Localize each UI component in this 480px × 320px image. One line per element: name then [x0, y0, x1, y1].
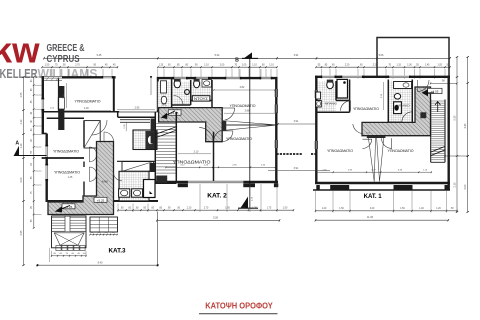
svg-text:9.40: 9.40 — [98, 261, 103, 264]
double door arcs below stem — [199, 128, 213, 142]
svg-text:2.00: 2.00 — [464, 184, 467, 189]
svg-text:5.30: 5.30 — [453, 115, 456, 120]
door arc corridor to bedroom I — [361, 123, 363, 134]
dimension stub right lower — [445, 155, 468, 157]
sink counter 2 lower bathroom — [132, 189, 143, 197]
title underline — [199, 313, 278, 314]
left outer wall lower — [46, 134, 48, 203]
roof terrace outline top right — [377, 38, 449, 78]
top wall left block — [42, 76, 116, 78]
gap dimension 3.91 upper — [278, 123, 316, 125]
lower bathroom KAT3 — [119, 171, 149, 201]
external stair KAT3 right flight — [90, 217, 118, 232]
svg-text:2.10: 2.10 — [453, 182, 456, 187]
dimension chain B3 bottom right — [316, 210, 458, 212]
svg-text:1.95: 1.95 — [225, 208, 230, 210]
pier block right 1 — [330, 185, 349, 190]
dimension chain T2 top detail — [42, 66, 118, 68]
door arc lobby — [103, 132, 105, 142]
dim line bedroom H — [383, 82, 385, 110]
svg-text:1.10: 1.10 — [269, 64, 274, 66]
stairwell walls middle — [175, 112, 177, 184]
svg-text:1.45: 1.45 — [425, 64, 430, 66]
svg-text:1.20: 1.20 — [322, 208, 327, 210]
right block left wall — [315, 76, 317, 184]
wardrobe darts bedroom I-J — [368, 137, 375, 182]
windows middle top wall — [174, 77, 186, 79]
svg-text:ΜΠΑΝΙΟ: ΜΠΑΝΙΟ — [325, 102, 338, 106]
svg-text:ΥΠΝΟΔΩΜΑΤΙΟ: ΥΠΝΟΔΩΜΑΤΙΟ — [230, 104, 256, 108]
vanity in small bathroom — [146, 131, 157, 149]
level box +4.05 right — [427, 88, 442, 93]
closet column with diagonal — [84, 121, 100, 148]
door arc R1 — [341, 101, 351, 111]
svg-text:1.10: 1.10 — [20, 143, 23, 148]
divider wall bedroom C-D — [42, 157, 84, 159]
middle block right wall — [275, 78, 277, 183]
vanity R2 — [394, 82, 412, 89]
window bedroom D left wall — [45, 165, 48, 179]
dark shaft beside stairwell — [150, 163, 156, 172]
svg-text:ΥΠΝΟΔΩΜΑΤΙΟ: ΥΠΝΟΔΩΜΑΤΙΟ — [53, 150, 79, 154]
cupboard blocks at stair wall — [151, 119, 155, 132]
svg-text:1.15: 1.15 — [396, 64, 401, 66]
door arc bathroom R2 — [402, 121, 413, 123]
corner wall lobby — [117, 112, 119, 117]
svg-text:5.24: 5.24 — [215, 54, 220, 57]
svg-text:1.50: 1.50 — [283, 208, 288, 210]
window in right top wall 2 — [389, 76, 409, 78]
svg-text:ΚΑΤ.3: ΚΑΤ.3 — [109, 247, 126, 254]
hall landing hatch middle block — [159, 108, 223, 142]
window in top wall 2 — [261, 77, 271, 79]
dimension line B4 11.06 — [316, 219, 449, 221]
wc room walls — [157, 78, 159, 112]
svg-text:3.91: 3.91 — [294, 120, 299, 123]
dim row right block veranda — [316, 171, 432, 173]
top wall middle block — [157, 77, 278, 79]
svg-text:2.00: 2.00 — [20, 177, 23, 182]
window in top wall left 1 — [103, 76, 112, 78]
svg-text:ΥΠΝΟΔΩΜΑΤΙΟ: ΥΠΝΟΔΩΜΑΤΙΟ — [54, 171, 80, 175]
dim line in bedroom A — [64, 109, 111, 111]
svg-text:ΚΑΤ. 2: ΚΑΤ. 2 — [207, 192, 227, 199]
lobby wardrobe band — [120, 119, 150, 121]
level box +4.05 middle — [168, 110, 181, 115]
stair enclosure right — [430, 100, 432, 163]
window in middle bottom wall — [188, 181, 243, 184]
witness lines bottom right — [315, 191, 317, 213]
door arc bedroom I — [363, 139, 372, 148]
dim line in void — [117, 109, 155, 111]
entry arrow middle — [161, 113, 168, 119]
door arc lower bathroom — [113, 172, 122, 181]
svg-text:ΜΠΑΝΙΟ: ΜΠΑΝΙΟ — [398, 104, 411, 108]
door arc hall to bedroom G — [222, 130, 233, 132]
dim line bedroom E — [178, 153, 211, 155]
bathroom R2 tiles — [389, 81, 413, 122]
dim line bedroom F2 — [224, 112, 276, 114]
window dashes mid-right wall — [275, 89, 277, 97]
wc toilet — [161, 96, 167, 104]
dimension line R1 right — [456, 57, 458, 212]
svg-text:1.00: 1.00 — [242, 64, 247, 66]
door arc M1 — [174, 96, 184, 106]
door arc bedroom C — [89, 147, 96, 162]
pier blocks middle block — [178, 183, 188, 187]
svg-text:3.20: 3.20 — [370, 208, 375, 210]
svg-text:2.70: 2.70 — [204, 208, 209, 210]
door arc bedroom J — [382, 138, 392, 148]
bathroom M2 tiles — [192, 82, 212, 101]
sink R1 — [316, 92, 321, 99]
section line vertical — [249, 58, 251, 208]
svg-text:3.91: 3.91 — [294, 167, 299, 170]
bathroom M2 walls — [190, 80, 192, 105]
svg-text:1.50: 1.50 — [45, 64, 50, 66]
dimension chain B1 bottom middle — [118, 209, 294, 211]
corridor wall above bedroom C — [47, 117, 84, 119]
inner wall above closet KAT3 — [117, 160, 155, 162]
svg-text:CYPRUS: CYPRUS — [47, 53, 80, 65]
cupboard on landing — [420, 112, 426, 118]
bathroom R1 tiles — [318, 81, 336, 112]
svg-text:1.10: 1.10 — [204, 64, 209, 66]
dim row middle block veranda — [166, 166, 275, 168]
shower R2 — [394, 102, 402, 114]
dimension line B6 9.40 — [37, 264, 157, 266]
svg-text:1.50: 1.50 — [339, 208, 344, 210]
small bathroom KAT3 — [133, 130, 157, 150]
stair treads middle block — [156, 123, 175, 125]
witness lines bottom middle — [117, 204, 119, 213]
door arc bedroom D — [89, 167, 96, 181]
landing and corridor hatch right block — [362, 87, 431, 136]
closet wall bedroom A — [58, 79, 60, 112]
section mark B bottom — [241, 197, 249, 209]
entry arrow right — [422, 89, 429, 96]
door arc corridor to bedroom C — [92, 120, 107, 135]
svg-text:3.91: 3.91 — [294, 54, 299, 57]
svg-text:ΥΠΝΟΔΩΜΑΤΙΟ: ΥΠΝΟΔΩΜΑΤΙΟ — [75, 100, 101, 104]
svg-text:KELLER: KELLER — [0, 66, 38, 81]
svg-text:WC: WC — [162, 103, 168, 107]
level box upper landing — [94, 197, 107, 202]
svg-text:ΥΠΝΟΔΩΜΑΤΙΟ: ΥΠΝΟΔΩΜΑΤΙΟ — [353, 107, 379, 111]
external stair KAT3 left flight — [52, 216, 87, 248]
svg-text:ΚΑΤΟΨΗ ΟΡΟΦΟΥ: ΚΑΤΟΨΗ ΟΡΟΦΟΥ — [205, 301, 273, 311]
svg-text:3.10: 3.10 — [194, 150, 199, 153]
svg-text:4.40: 4.40 — [464, 123, 467, 128]
stair treads right block — [431, 100, 444, 102]
toilet M1 — [174, 80, 180, 88]
witness lines KAT3 stair — [49, 248, 51, 262]
hatched landing KAT3 — [48, 142, 114, 215]
wall right of bedrooms C-D — [83, 121, 85, 147]
svg-text:ΚΛΙΜ.: ΚΛΙΜ. — [102, 181, 109, 184]
svg-text:1.20: 1.20 — [187, 208, 192, 210]
svg-text:1.75: 1.75 — [267, 208, 272, 210]
wall step at left side — [42, 133, 47, 135]
middle block bottom wall — [156, 181, 278, 184]
svg-text:1.45: 1.45 — [68, 176, 73, 179]
dimension chain B5b — [52, 255, 87, 257]
balcony rail stubs in gap — [277, 153, 303, 155]
entry arrow KAT3 — [55, 206, 62, 212]
veranda parapet wall — [313, 189, 450, 191]
wall right of bathrooms — [211, 80, 213, 108]
witness lines below top chain — [102, 69, 104, 77]
wardrobe darts bedroom F-G — [226, 121, 275, 125]
stair left wall — [154, 112, 156, 184]
pier block right 4 — [445, 185, 449, 190]
svg-text:1.00: 1.00 — [241, 208, 246, 210]
stair up arrow right — [435, 102, 440, 113]
right block top wall — [315, 76, 450, 78]
svg-text:5.28: 5.28 — [213, 216, 218, 219]
dimension line T1 overall top — [44, 57, 450, 59]
closet with diagonal KAT3 — [122, 162, 154, 172]
svg-text:5.45: 5.45 — [97, 54, 102, 57]
window in top wall 1 — [226, 77, 240, 79]
svg-text:1.40: 1.40 — [419, 208, 424, 210]
svg-text:1.05: 1.05 — [437, 64, 442, 66]
svg-text:ΝΤΟΥΣ: ΝΤΟΥΣ — [194, 97, 208, 101]
corner wall at void — [113, 77, 115, 112]
svg-text:1.20: 1.20 — [252, 208, 257, 210]
svg-text:A: A — [15, 140, 19, 146]
svg-text:ΚΑΤ. 1: ΚΑΤ. 1 — [364, 193, 382, 200]
toilet R2 — [394, 94, 400, 100]
svg-text:2.95: 2.95 — [135, 107, 140, 110]
svg-text:1.20: 1.20 — [159, 64, 164, 66]
right block rooms bottom wall — [315, 182, 450, 184]
dimension line L1 overall left — [23, 77, 25, 265]
svg-text:ΥΠΝΟΔΩΜΑΤΙΟ: ΥΠΝΟΔΩΜΑΤΙΟ — [226, 137, 252, 141]
bathroom M1 wall — [172, 104, 191, 106]
svg-text:1.10: 1.10 — [252, 64, 257, 66]
shower box R1 — [337, 79, 348, 98]
svg-text:2.20: 2.20 — [345, 64, 350, 66]
svg-text:1.10: 1.10 — [20, 119, 23, 124]
stair cut line middle — [156, 127, 175, 134]
void south edge line — [119, 111, 158, 113]
door arc hall to bedroom F — [222, 107, 234, 109]
window in right top wall 1 — [322, 76, 335, 78]
svg-text:2.70: 2.70 — [75, 64, 80, 66]
duct block — [58, 86, 64, 98]
svg-text:1.50: 1.50 — [400, 208, 405, 210]
level box +5.25 — [62, 204, 75, 209]
svg-text:1.55: 1.55 — [20, 92, 23, 97]
window top wall closet — [44, 76, 62, 78]
svg-text:5.06: 5.06 — [379, 54, 384, 57]
svg-text:11.06: 11.06 — [367, 216, 374, 219]
window dashes right-block left wall — [315, 90, 317, 98]
bathroom M1 tiles — [172, 82, 190, 106]
window in left wall — [41, 99, 44, 109]
stair cut right — [431, 147, 445, 153]
svg-text:ΥΠΝΟΔΩΜΑΤΙΟ: ΥΠΝΟΔΩΜΑΤΙΟ — [388, 149, 414, 153]
svg-text:2.95: 2.95 — [20, 230, 23, 235]
svg-text:1.00: 1.00 — [407, 64, 412, 66]
svg-text:3.00: 3.00 — [63, 94, 66, 99]
shower box NTOYS — [192, 96, 210, 101]
wc room floor tiles — [158, 82, 171, 111]
floor drain M1 — [185, 90, 190, 95]
svg-text:ΥΠΝΟΔΩΜΑΤΙΟ: ΥΠΝΟΔΩΜΑΤΙΟ — [327, 149, 353, 153]
svg-text:B: B — [235, 58, 239, 64]
svg-text:+4.05: +4.05 — [171, 111, 179, 115]
gap dimension lower — [268, 170, 330, 172]
pier block right 3 — [316, 185, 320, 190]
svg-text:4.20: 4.20 — [84, 107, 89, 110]
svg-text:3.88: 3.88 — [245, 110, 250, 113]
dimension chain B5a step dims — [90, 234, 117, 236]
door arc terrace to landing — [418, 80, 430, 92]
svg-text:2.00: 2.00 — [220, 64, 225, 66]
wall below bedroom A — [42, 111, 120, 113]
toilet M2 — [194, 80, 200, 88]
bathroom R1 shower tiles — [337, 81, 350, 101]
dim line bedroom F — [214, 89, 275, 91]
pier block right 2 — [394, 185, 413, 190]
connector line right of KAT3 — [156, 212, 158, 266]
divider bedroom E-G — [213, 132, 215, 181]
sink counter 1 lower bathroom — [119, 189, 130, 197]
vanity M2 — [202, 80, 212, 88]
bathroom R2 walls — [387, 80, 389, 123]
toilet R1 — [327, 81, 334, 89]
svg-text:+5.25: +5.25 — [97, 198, 105, 202]
right block right wall — [448, 76, 450, 190]
svg-text:1.20: 1.20 — [436, 208, 441, 210]
bathtub lower bathroom — [144, 180, 156, 198]
svg-text:kw: kw — [0, 30, 40, 71]
dimension line B2 5.28 — [157, 219, 280, 221]
bottom wall of KAT3 rooms — [46, 200, 158, 202]
dimension line R2 right outer — [467, 57, 469, 212]
wc shower — [161, 81, 167, 93]
window bedroom C left wall — [45, 146, 48, 157]
svg-text:ΥΠΝΟΔΩΜΑΤΙΟ: ΥΠΝΟΔΩΜΑΤΙΟ — [173, 160, 212, 165]
left outer wall upper — [42, 76, 44, 133]
svg-text:4.82: 4.82 — [240, 86, 245, 89]
bathroom R1 walls — [335, 81, 337, 101]
dimension chain L2 left detail — [33, 77, 35, 228]
dimension stub right upper — [431, 82, 457, 84]
